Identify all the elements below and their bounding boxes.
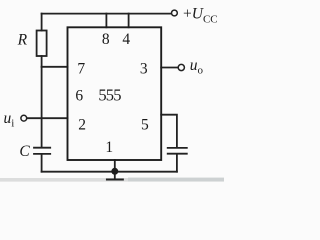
right capacitor bottom plate — [168, 153, 187, 155]
svg-text:R: R — [17, 32, 28, 49]
right capacitor bottom lead — [176, 155, 178, 172]
svg-text:1: 1 — [105, 139, 113, 156]
svg-text:2: 2 — [78, 116, 86, 133]
wire: top rail — [42, 13, 172, 15]
wire: pin 8 stub — [105, 14, 107, 28]
right capacitor top plate — [168, 147, 187, 149]
terminal +UCC circle — [172, 10, 178, 16]
svg-text:C: C — [19, 143, 30, 160]
svg-text:7: 7 — [77, 60, 85, 77]
wire: pin 3 to u_o terminal — [161, 67, 178, 69]
svg-text:6: 6 — [75, 88, 83, 105]
capacitor C bottom lead — [41, 155, 43, 172]
svg-text:4: 4 — [122, 31, 130, 48]
resistor R bottom lead — [41, 56, 43, 67]
op IC U1: 555 box — [68, 27, 162, 160]
ground bar — [107, 179, 123, 181]
svg-text:5: 5 — [141, 116, 149, 133]
junction dot (ground node) — [111, 168, 118, 175]
wire: left rail down to capacitor C — [41, 67, 43, 147]
svg-text:8: 8 — [102, 31, 110, 48]
svg-text:555: 555 — [98, 86, 121, 105]
wire: R bottom to pin 7 — [42, 66, 68, 68]
wire: bottom rail — [42, 171, 177, 173]
terminal u_i circle — [21, 115, 27, 121]
wire: pin 5 to right capacitor — [161, 115, 177, 147]
wire: u_i terminal to pin 2 — [27, 117, 68, 119]
resistor R body — [37, 31, 47, 57]
ground stem — [114, 172, 116, 179]
svg-text:3: 3 — [140, 60, 148, 77]
wire: pin 1 stub — [114, 160, 116, 172]
wire: pin 4 stub — [128, 14, 130, 28]
terminal u_o circle — [178, 64, 184, 70]
capacitor C top plate — [34, 147, 50, 149]
resistor R top lead — [41, 14, 43, 31]
capacitor C bottom plate — [34, 153, 50, 155]
